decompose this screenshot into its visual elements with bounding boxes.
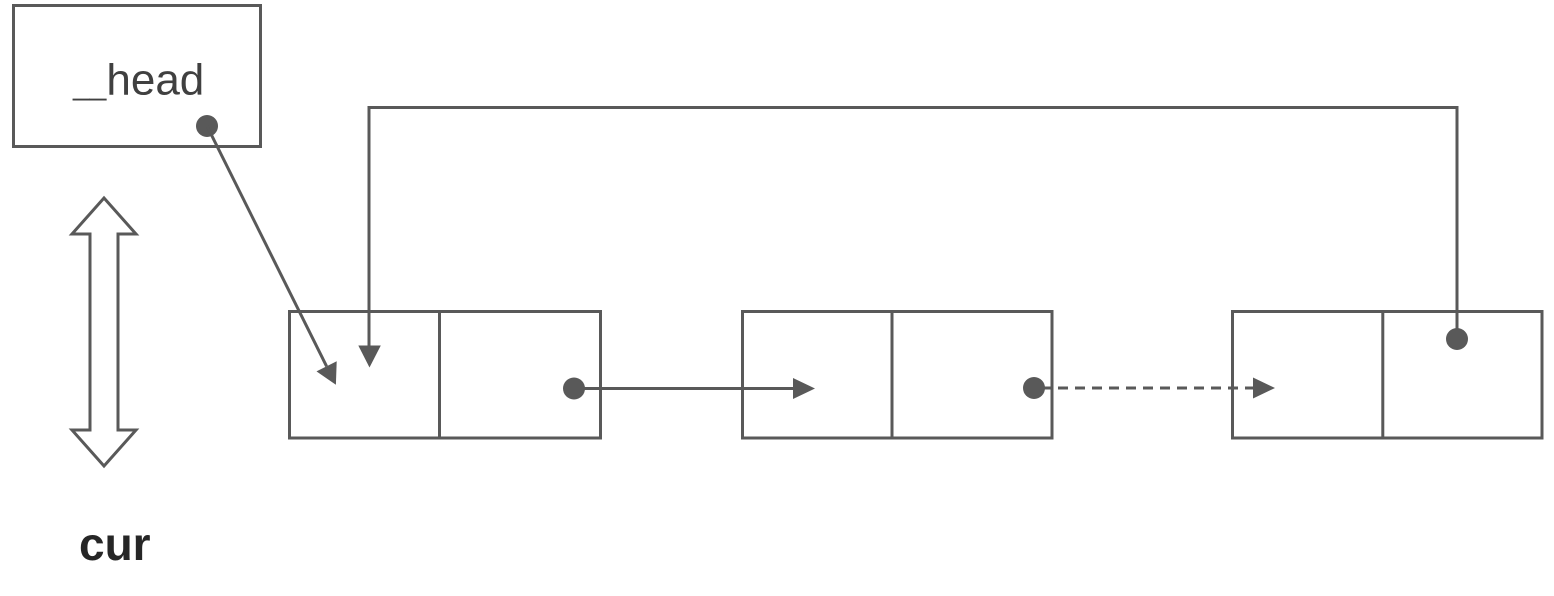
node 2 next dot xyxy=(1023,377,1045,399)
svg-text:cur: cur xyxy=(79,518,151,570)
head pointer dot xyxy=(196,115,218,137)
next arrow node1 to node2 xyxy=(574,378,815,399)
node 2 box xyxy=(743,312,1053,439)
dashed next arrow node2 to node3 xyxy=(1041,378,1275,399)
head box xyxy=(14,6,261,147)
label __head xyxy=(72,56,204,105)
label cur xyxy=(79,518,151,570)
node 1 next dot xyxy=(563,378,585,400)
cur double arrow xyxy=(72,198,136,466)
pointer wire from __head to node 1 xyxy=(207,126,337,385)
node 3 box xyxy=(1233,312,1543,439)
node 3 next dot xyxy=(1446,328,1468,350)
loop wire node3 back to node1 xyxy=(358,108,1457,368)
node 1 box xyxy=(290,312,601,439)
